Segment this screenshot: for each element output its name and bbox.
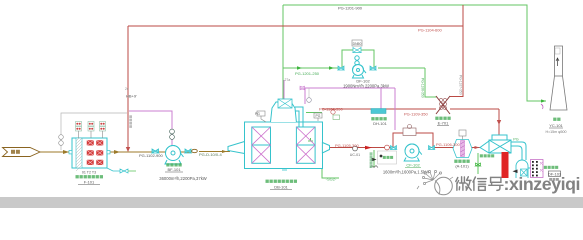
svg-text:PG-1107-350: PG-1107-350	[459, 75, 463, 95]
svg-text:PG: PG	[316, 114, 321, 118]
svg-text:2x: 2x	[125, 87, 129, 91]
svg-text:PG-1102-900: PG-1102-900	[139, 153, 163, 158]
svg-text:27a: 27a	[285, 78, 291, 82]
svg-text:BF-101: BF-101	[167, 167, 181, 172]
svg-text:PG-D-10/0-4: PG-D-10/0-4	[199, 152, 222, 157]
svg-text:PG-1201-250: PG-1201-250	[295, 71, 320, 76]
svg-text:PG-1106-300: PG-1106-300	[436, 142, 460, 147]
svg-text:H=15m φ500: H=15m φ500	[545, 130, 566, 134]
svg-text:CF-102: CF-102	[406, 163, 420, 168]
svg-text:PG-1105-300: PG-1105-300	[335, 143, 359, 148]
svg-text:E-701: E-701	[438, 121, 449, 126]
svg-text:(A-101): (A-101)	[455, 164, 469, 169]
svg-text:-SG2-: -SG2-	[326, 177, 337, 182]
svg-text:PG-1104-600: PG-1104-600	[418, 28, 442, 33]
svg-text:DN50: DN50	[353, 42, 362, 46]
svg-text:PG-1109-350: PG-1109-350	[404, 112, 428, 117]
svg-text:HB+9': HB+9'	[126, 94, 137, 99]
svg-text:PG-1201-900: PG-1201-900	[338, 6, 363, 11]
svg-text:DH-101: DH-101	[373, 121, 388, 126]
svg-text:F-101: F-101	[84, 180, 95, 185]
svg-text:01 T2 T3: 01 T2 T3	[82, 171, 96, 175]
svg-text:PG-1106-350: PG-1106-350	[421, 78, 425, 98]
svg-text:PG: PG	[255, 112, 260, 116]
svg-text:36000m³/h,2200Pa,37kW: 36000m³/h,2200Pa,37kW	[159, 176, 207, 181]
svg-text:1600m³/h,1600Pa,1.5kW: 1600m³/h,1600Pa,1.5kW	[383, 170, 429, 175]
svg-text::xinzeyiqi: :xinzeyiqi	[504, 174, 581, 194]
svg-text:1900Nm³/h 2200Pa.3kW: 1900Nm³/h 2200Pa.3kW	[343, 84, 389, 89]
svg-text:UC-01: UC-01	[350, 153, 360, 157]
svg-text:PG: PG	[513, 138, 519, 142]
svg-text:DB-101: DB-101	[274, 185, 288, 190]
svg-text:YC-101: YC-101	[549, 123, 563, 128]
svg-text:PG-1108-350: PG-1108-350	[319, 107, 343, 112]
